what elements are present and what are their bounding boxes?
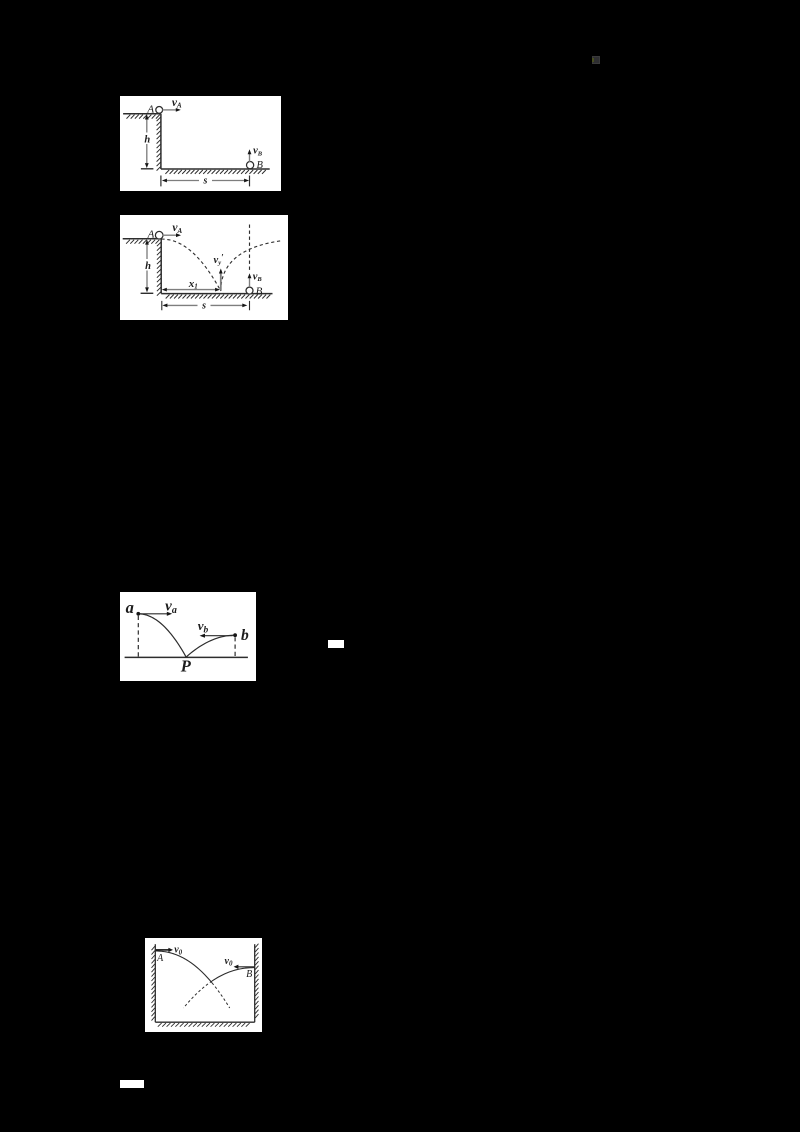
lower ground hatching (165, 170, 265, 174)
label x1 (187, 277, 197, 290)
label vA (171, 96, 181, 109)
svg-text:B: B (246, 969, 252, 980)
point B label (246, 969, 252, 980)
label v0 of B (225, 955, 233, 967)
label a (125, 598, 133, 617)
velocity arrow vB (247, 149, 251, 162)
label v0 of A (174, 944, 182, 956)
label vy prime (213, 252, 224, 266)
left wall hatching (152, 946, 155, 1020)
dashed bounce trajectory (220, 240, 280, 290)
s dimension line (161, 178, 248, 182)
label A (146, 103, 154, 115)
svg-text:s: s (201, 300, 206, 311)
velocity arrow vA (162, 108, 180, 112)
svg-text:A: A (156, 953, 164, 964)
svg-text:vb: vb (197, 618, 208, 635)
ball A (155, 106, 162, 113)
svg-text:vA: vA (171, 96, 181, 109)
lower ground hatching (165, 294, 270, 298)
label va (165, 598, 177, 615)
vy arrow at landing point (218, 268, 222, 290)
label b (241, 626, 249, 643)
upper ground surface line (123, 112, 161, 114)
svg-text:P: P (179, 656, 191, 675)
trajectory of B solid part (212, 967, 255, 980)
trajectory of A dashed part (212, 982, 230, 1007)
floor hatching (158, 1023, 250, 1027)
lower ground surface line (161, 292, 272, 294)
svg-text:h: h (145, 261, 151, 272)
floor line (155, 1021, 254, 1023)
svg-text:vB: vB (252, 271, 262, 283)
figure 3: bouncing trajectory a-P-b (120, 592, 256, 681)
trajectory of B dashed part (184, 981, 213, 1008)
svg-text:vB: vB (253, 145, 263, 157)
upper ground surface line (122, 237, 161, 239)
svg-text:A: A (146, 228, 154, 240)
small white rectangle mid page (328, 640, 344, 648)
label vA (172, 222, 182, 235)
left wall line (154, 944, 156, 1022)
lower ground surface line (160, 168, 269, 170)
h dimension arrow (145, 239, 149, 292)
label vb (197, 618, 208, 635)
s dimension line (162, 303, 247, 307)
svg-text:vy′: vy′ (213, 252, 224, 266)
label B (255, 285, 262, 297)
h dimension arrow (144, 114, 148, 168)
trajectory a to P (138, 613, 186, 657)
cliff wall hatching (156, 117, 160, 170)
label h (145, 261, 151, 272)
velocity arrow v0 of A (156, 947, 173, 951)
svg-text:va: va (165, 598, 177, 615)
cliff wall line (159, 113, 161, 168)
svg-text:x1: x1 (187, 277, 197, 290)
point a (136, 611, 140, 615)
svg-text:h: h (144, 134, 150, 145)
trajectory of A solid part (155, 951, 212, 983)
ball B (246, 287, 253, 294)
ground line (124, 656, 247, 658)
svg-text:A: A (146, 103, 154, 115)
ball A (155, 231, 163, 239)
svg-text:v0: v0 (225, 955, 233, 967)
upper ground hatching (126, 239, 159, 243)
x1 dimension line (161, 287, 219, 291)
label h (144, 134, 150, 145)
figure 1: cliff with balls A and B (120, 96, 281, 191)
svg-text:v0: v0 (174, 944, 182, 956)
h base tick (140, 167, 153, 169)
figure 4: container with crossing trajectories A and B (145, 938, 262, 1032)
velocity arrow va (139, 611, 171, 615)
trajectory P to b (186, 635, 235, 657)
point b (233, 633, 237, 637)
label B (256, 160, 263, 171)
s end ticks (160, 175, 249, 186)
cliff wall hatching (156, 242, 160, 295)
label vB (253, 145, 263, 157)
figure 2: cliff with trajectories, balls A and B (120, 215, 288, 320)
svg-text:a: a (125, 598, 133, 617)
right wall line (254, 944, 256, 1022)
dashed vertical line above B (248, 224, 250, 272)
label vB (252, 271, 262, 283)
dashed drop line from b (234, 637, 236, 656)
label P (179, 656, 191, 675)
label A (146, 228, 154, 240)
svg-text:B: B (255, 285, 262, 297)
dashed trajectory of A (161, 239, 220, 291)
velocity arrow vb (199, 633, 232, 637)
svg-text:b: b (241, 626, 249, 643)
svg-text:B: B (256, 160, 263, 171)
velocity arrow v0 of B (234, 964, 255, 968)
dashed drop line from a (137, 615, 139, 656)
svg-text:s: s (202, 175, 207, 186)
ball B (246, 161, 253, 168)
h base tick (140, 292, 153, 294)
upper ground hatching (126, 114, 159, 118)
s end ticks (161, 300, 249, 309)
velocity arrow vA (162, 233, 181, 237)
cliff wall line (160, 238, 162, 293)
label s (202, 175, 207, 186)
small icon square top right (592, 56, 601, 65)
svg-text:vA: vA (172, 222, 182, 235)
label s (201, 300, 206, 311)
right wall hatching (255, 943, 258, 1017)
small white rectangle bottom left (120, 1080, 144, 1088)
velocity arrow vB (247, 273, 251, 287)
point A label (156, 953, 164, 964)
